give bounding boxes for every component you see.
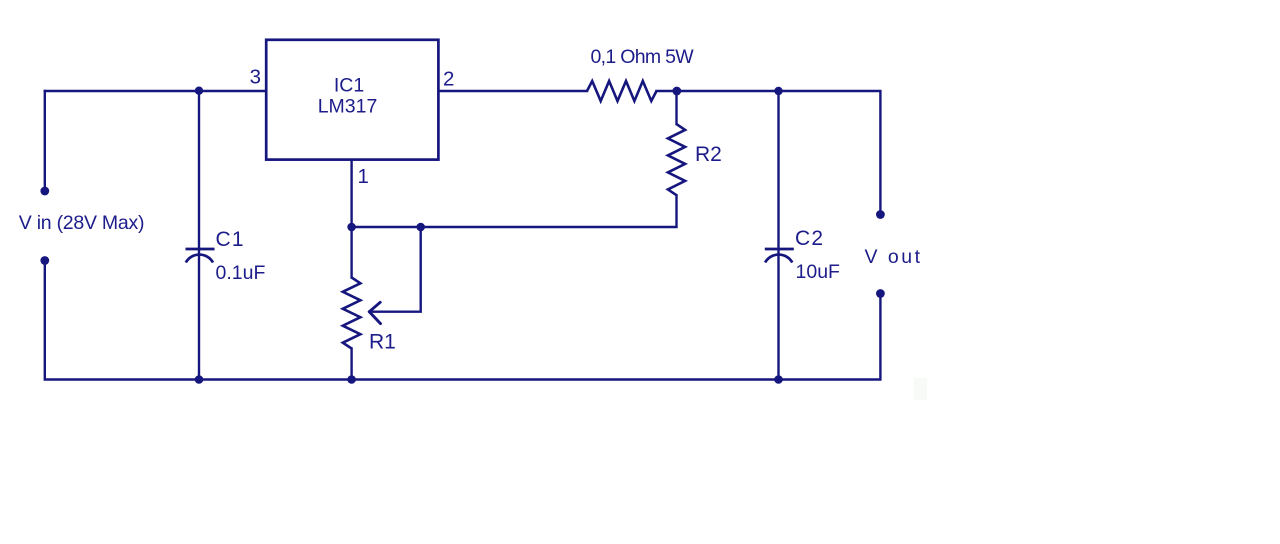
svg-text:0,1 Ohm 5W: 0,1 Ohm 5W: [591, 46, 695, 68]
svg-text:2: 2: [443, 68, 454, 91]
svg-text:IC1: IC1: [334, 75, 364, 97]
svg-text:0.1uF: 0.1uF: [216, 262, 266, 284]
svg-text:C1: C1: [216, 228, 245, 251]
svg-text:R2: R2: [695, 143, 722, 166]
svg-text:1: 1: [358, 165, 369, 188]
svg-text:C2: C2: [795, 227, 824, 250]
svg-text:V in (28V Max): V in (28V Max): [19, 212, 144, 234]
svg-text:R1: R1: [369, 331, 396, 354]
svg-text:3: 3: [250, 66, 261, 89]
svg-text:LM317: LM317: [318, 96, 378, 118]
svg-text:10uF: 10uF: [796, 261, 841, 283]
svg-text:V out: V out: [865, 246, 923, 268]
